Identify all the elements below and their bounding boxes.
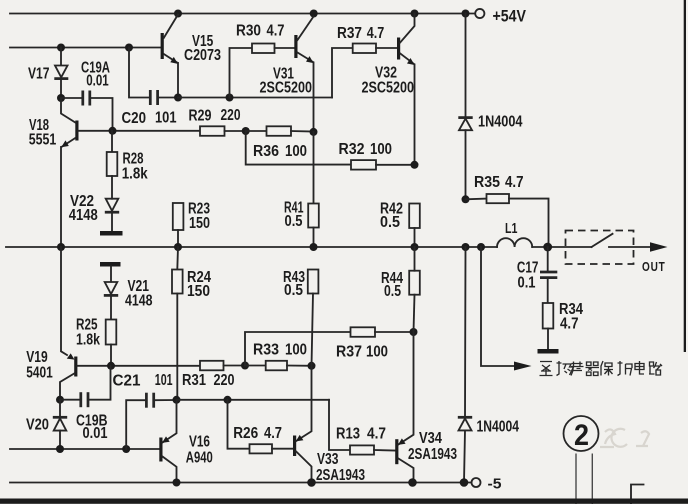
- transistor V15 C2073: [161, 15, 221, 98]
- resistor R41 0.5: [284, 132, 319, 247]
- svg-text:100: 100: [285, 342, 307, 359]
- node R25/C19B on base line: [107, 362, 115, 370]
- node V17-C19A-V18 collector junction: [57, 94, 65, 102]
- resistor R42 0.5: [380, 200, 420, 247]
- resistor R43 0.5: [283, 269, 318, 366]
- relay contact dashed box: [566, 231, 634, 265]
- wire OUT line: [609, 246, 653, 248]
- svg-text:4148: 4148: [125, 292, 153, 309]
- svg-text:4.7: 4.7: [367, 426, 386, 443]
- svg-text:0.01: 0.01: [83, 425, 108, 442]
- faint watermark smudge: [600, 429, 649, 447]
- svg-text:4.7: 4.7: [367, 25, 385, 42]
- node 1N4004 on bottom rail: [460, 478, 469, 487]
- svg-text:V33: V33: [317, 451, 339, 468]
- char 电: [635, 361, 644, 374]
- svg-text:R29: R29: [189, 107, 212, 124]
- transistor V32 2SC5200: [362, 14, 415, 165]
- svg-text:V19: V19: [26, 349, 48, 366]
- wire V19 base line: [77, 365, 200, 367]
- char 声: [571, 362, 584, 376]
- svg-text:R32: R32: [339, 141, 365, 158]
- char 护: [618, 361, 633, 376]
- wire rise to R37 level: [245, 332, 351, 366]
- resistor R31 220: [182, 361, 245, 389]
- svg-text:5401: 5401: [26, 365, 53, 382]
- wire -5 bottom rail: [10, 482, 471, 484]
- ground bar above V21: [100, 262, 121, 267]
- svg-text:OUT: OUT: [642, 259, 666, 274]
- node V18/V19 emitters on mid rail: [57, 243, 65, 251]
- wire input rail lower: [10, 448, 159, 450]
- wire emitter bus to R30 tap: [178, 97, 332, 99]
- node protection feeder on mid rail: [477, 243, 485, 251]
- svg-text:2: 2: [574, 419, 589, 452]
- node R36 right on V31 emitter line: [310, 128, 318, 136]
- svg-text:220: 220: [221, 107, 241, 124]
- node C21 tap on lower rail: [122, 445, 130, 453]
- wire V18 base line: [79, 130, 201, 132]
- sheet symbol circle 2: [564, 416, 599, 452]
- wire corner bottom right: [631, 485, 644, 504]
- svg-text:R37: R37: [336, 344, 362, 361]
- resistor R37 100 (lower): [336, 327, 414, 360]
- svg-text:1.8k: 1.8k: [76, 331, 100, 348]
- char 扬: [557, 361, 574, 376]
- svg-text:4.7: 4.7: [267, 22, 285, 39]
- svg-text:V16: V16: [189, 434, 210, 451]
- node V31 collector on +54V rail: [310, 10, 318, 18]
- node C19A/R28 on base line: [109, 127, 117, 135]
- node R41/R43 on mid rail: [310, 243, 318, 251]
- capacitor C20 101: [122, 48, 179, 128]
- node R30 tap: [226, 94, 234, 102]
- relay switch blade: [592, 234, 613, 247]
- svg-text:150: 150: [187, 283, 210, 300]
- resistor R36 100: [246, 126, 314, 160]
- svg-text:0.5: 0.5: [285, 213, 303, 230]
- svg-text:100: 100: [285, 143, 307, 160]
- svg-text:5551: 5551: [29, 132, 57, 149]
- svg-text:C21: C21: [113, 373, 141, 390]
- node L1/R35/C17 junction: [543, 243, 552, 252]
- resistor R25 1.8k: [76, 316, 116, 366]
- resistor R30 4.7: [230, 22, 295, 97]
- resistor R29 220: [189, 107, 246, 136]
- bottom border bar: [0, 499, 688, 504]
- svg-text:100: 100: [370, 141, 392, 158]
- svg-text:1.8k: 1.8k: [122, 165, 148, 182]
- svg-text:2SA1943: 2SA1943: [316, 467, 365, 484]
- svg-text:100: 100: [366, 344, 388, 361]
- node R32 right on V32 emitter line: [411, 161, 419, 169]
- resistor R32 100: [339, 141, 415, 170]
- node 1N4004 feeder on +54V rail: [462, 10, 470, 18]
- diode V20: [26, 400, 67, 449]
- diode V21 4148: [104, 267, 153, 320]
- node R33 right on V33 emitter line: [308, 362, 316, 370]
- node V20 on lower rail: [56, 445, 64, 453]
- diode 1N4004 upper: [458, 14, 522, 200]
- node V19 collector / C19B junction: [56, 396, 64, 404]
- char 至: [540, 362, 553, 376]
- svg-text:R37: R37: [337, 25, 362, 42]
- wire drop to R32 level: [246, 131, 351, 165]
- node V32 collector on +54V rail: [411, 10, 419, 18]
- node diode feeder on mid rail: [462, 243, 470, 251]
- transistor V34 2SA1943: [395, 332, 457, 483]
- resistor R23 150: [173, 200, 210, 247]
- svg-text:R30: R30: [236, 22, 261, 39]
- svg-text:101: 101: [155, 372, 173, 389]
- svg-text:0.1: 0.1: [518, 275, 536, 292]
- svg-text:V17: V17: [28, 66, 50, 83]
- resistor R28 1.8k: [107, 131, 148, 199]
- diode V17: [28, 48, 68, 99]
- resistor R26 4.7: [228, 400, 294, 454]
- terminal +54V: [475, 9, 484, 18]
- svg-text:4.7: 4.7: [505, 174, 524, 191]
- svg-text:-5: -5: [488, 475, 502, 492]
- node V15 collector on +54V rail: [174, 10, 182, 18]
- capacitor C19A: [61, 59, 113, 131]
- svg-text:101: 101: [155, 110, 177, 127]
- capacitor C17 0.1: [517, 247, 557, 303]
- svg-text:C20: C20: [122, 110, 147, 127]
- resistor R37 4.7 (upper): [337, 25, 397, 53]
- node R26 tap: [224, 396, 232, 404]
- svg-text:L1: L1: [505, 220, 518, 237]
- svg-text:1N4004: 1N4004: [478, 113, 523, 130]
- ground bar under R34: [538, 349, 559, 354]
- svg-text:2SC5200: 2SC5200: [362, 79, 415, 96]
- capacitor C21 101: [113, 372, 177, 449]
- transistor V16 A940: [159, 400, 213, 483]
- svg-text:A940: A940: [186, 449, 213, 466]
- diode 1N4004 lower: [458, 247, 519, 483]
- svg-text:2SA1943: 2SA1943: [408, 446, 457, 463]
- resistor R34 4.7: [543, 301, 583, 349]
- transistor V31 2SC5200: [260, 17, 314, 132]
- right border line: [684, 0, 686, 352]
- char 路: [649, 362, 662, 375]
- node C21 / R24 line / V16 emitter: [173, 396, 181, 404]
- node R31/R33 junction: [241, 362, 249, 370]
- svg-text:C2073: C2073: [184, 47, 221, 64]
- node V33 collector on bottom rail: [307, 478, 316, 487]
- resistor R35 4.7: [466, 174, 549, 247]
- svg-text:R13: R13: [336, 426, 360, 443]
- svg-text:R33: R33: [253, 342, 279, 359]
- transistor V19 5401: [26, 247, 77, 400]
- ground bar under V22: [100, 231, 123, 236]
- node V15 emitter / C20: [174, 94, 182, 102]
- svg-text:R31: R31: [182, 372, 206, 389]
- svg-text:0.5: 0.5: [284, 282, 303, 299]
- svg-text:R26: R26: [233, 425, 258, 442]
- svg-text:V20: V20: [26, 416, 49, 433]
- svg-text:+54V: +54V: [493, 6, 527, 25]
- wire pair below circle 2: [575, 454, 577, 504]
- node R35 tap: [462, 195, 470, 203]
- inductor L1: [497, 220, 592, 247]
- svg-text:R36: R36: [253, 143, 279, 160]
- node R29/R36/R32 junction: [242, 127, 250, 135]
- svg-text:V34: V34: [419, 430, 442, 447]
- svg-text:R35: R35: [474, 174, 500, 191]
- svg-text:150: 150: [189, 215, 210, 232]
- node V16 collector on bottom rail: [173, 479, 181, 487]
- wire +54V top rail: [10, 13, 475, 15]
- node R23/R24 on mid rail: [174, 243, 182, 251]
- resistor R24 150: [172, 247, 211, 400]
- char 器: [586, 362, 600, 376]
- svg-text:4.7: 4.7: [264, 425, 282, 442]
- wire riser down to R13: [329, 400, 350, 450]
- wire lower bus to R13 riser: [177, 399, 330, 401]
- svg-text:0.01: 0.01: [86, 72, 109, 89]
- arrow to speaker protection: [514, 362, 532, 371]
- wire mid output rail: [6, 246, 497, 248]
- svg-text:4.7: 4.7: [560, 315, 579, 332]
- capacitor C19B 0.01: [60, 366, 111, 442]
- wire input rail upper: [10, 47, 161, 49]
- svg-text:0.5: 0.5: [384, 283, 401, 300]
- terminal -5: [472, 478, 481, 487]
- node R42/R44 on mid rail: [411, 243, 419, 251]
- transistor V33 2SA1943: [293, 366, 365, 484]
- transistor V18 5551: [29, 98, 79, 247]
- svg-text:220: 220: [214, 372, 235, 389]
- svg-text:0.5: 0.5: [380, 214, 400, 231]
- resistor R33 100: [245, 342, 312, 371]
- svg-text:1N4004: 1N4004: [477, 418, 520, 435]
- char 保: [601, 361, 613, 376]
- arrow OUT: [650, 242, 668, 251]
- node R37 right / R44 / V34 emitter: [410, 328, 418, 336]
- svg-text:2SC5200: 2SC5200: [260, 79, 313, 96]
- wire to speaker protection: [481, 247, 517, 366]
- node C20 tap on upper rail: [125, 44, 133, 52]
- resistor R13 4.7: [336, 426, 395, 455]
- svg-text:4148: 4148: [69, 207, 98, 224]
- resistor R44 0.5: [381, 247, 420, 332]
- wire riser to R37: [332, 48, 353, 98]
- node V17 anode on upper rail: [57, 44, 65, 52]
- node V34 collector on bottom rail: [408, 478, 417, 487]
- diode V22 4148: [69, 193, 120, 231]
- text 至扬声器保护电路 (drawn strokes): [540, 361, 663, 376]
